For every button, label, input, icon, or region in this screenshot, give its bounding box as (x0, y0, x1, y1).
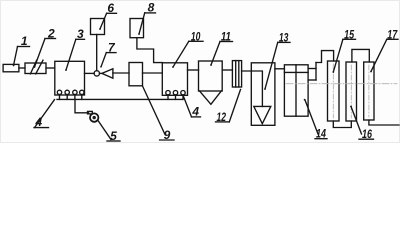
box 9 (129, 63, 143, 86)
chamber 10 (162, 63, 187, 96)
svg-text:15: 15 (344, 27, 354, 41)
riser to column 15 (316, 51, 334, 63)
bottom U bend I-II (333, 121, 351, 128)
leader 8 (139, 13, 145, 34)
svg-text:3: 3 (77, 27, 84, 41)
leader 15 (333, 39, 343, 72)
nozzles under 3 (57, 90, 61, 94)
chamber 3 (55, 61, 85, 95)
nozzle drop ticks (59, 95, 61, 100)
column III (17) (364, 62, 374, 120)
svg-text:9: 9 (164, 128, 171, 142)
leader 2 (35, 39, 46, 68)
box 6 (91, 19, 105, 35)
ejector 7 circle (94, 71, 99, 76)
leader 5 (98, 121, 111, 140)
svg-text:17: 17 (387, 27, 398, 41)
top bend II-III (352, 49, 369, 62)
blower 5 (90, 113, 98, 121)
leader 11 (211, 42, 220, 66)
svg-text:11: 11 (221, 29, 231, 43)
bin 13 (251, 63, 275, 126)
leader 13 (265, 42, 278, 89)
leader 4 right (184, 97, 192, 117)
horizontal centerline (286, 83, 397, 85)
svg-text:4: 4 (191, 105, 199, 119)
bottom collector pipe (57, 98, 183, 100)
wire 2-3 (46, 67, 55, 69)
ejector cone (102, 69, 113, 78)
cyclone 11 cone (200, 91, 222, 104)
cyclone 11 body (199, 61, 223, 91)
leader 6 (100, 13, 107, 29)
box 8 (130, 19, 144, 38)
ejector link (100, 72, 102, 74)
svg-text:5: 5 (110, 129, 117, 143)
leader 4 left (35, 100, 55, 128)
screen 2 (25, 63, 46, 74)
blower 5 inlet stub (88, 111, 93, 114)
leader 9 (143, 86, 166, 135)
leader 7 (101, 53, 106, 67)
svg-text:6: 6 (107, 1, 114, 15)
svg-text:10: 10 (191, 29, 201, 43)
svg-text:2: 2 (47, 27, 55, 41)
svg-text:13: 13 (279, 30, 289, 44)
leader 16 (351, 107, 362, 135)
wire 1-2 (19, 67, 25, 69)
feeder 12 (232, 61, 241, 87)
bin 13 funnel (254, 106, 271, 123)
leader 12 (229, 90, 240, 122)
leader 1 (14, 47, 18, 66)
outlet pipe (369, 120, 399, 125)
wire 10-11 (188, 69, 199, 71)
column II (346, 62, 357, 121)
svg-text:12: 12 (217, 110, 227, 124)
svg-text:4: 4 (34, 115, 42, 129)
leader 10 (173, 41, 189, 67)
stem 8 staircase (137, 38, 163, 63)
wire 11-12 (222, 69, 232, 71)
leader 17 (371, 39, 387, 71)
feeder block 1 (3, 64, 19, 71)
leader 14 (305, 100, 318, 134)
wire 13-14 (275, 68, 285, 70)
svg-text:16: 16 (362, 127, 372, 141)
stem 6-ejector (96, 35, 98, 71)
nozzle pipes 14 (308, 68, 316, 70)
leader 3 (66, 39, 76, 70)
nozzles under 10 (166, 91, 170, 95)
hatch lines of 2 (30, 60, 36, 74)
svg-text:14: 14 (316, 127, 326, 141)
wire 9-10 (143, 72, 163, 74)
svg-text:1: 1 (21, 34, 28, 48)
wire 3-ejector (85, 72, 95, 74)
wire 12-13 with inner tube (242, 71, 263, 106)
nozzle ticks 10 (167, 95, 169, 100)
svg-text:8: 8 (148, 1, 155, 14)
column I (15) (328, 61, 340, 121)
drop pipe to blower 5 (75, 99, 89, 112)
apparatus 14 (284, 65, 308, 116)
wire ejector-9 (113, 72, 129, 74)
